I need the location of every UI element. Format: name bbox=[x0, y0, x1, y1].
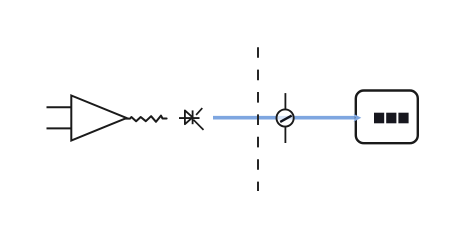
ellipsis dot 2 bbox=[386, 113, 396, 124]
ray: emission lower bbox=[194, 120, 204, 130]
isolator X1 (circle with slash) bbox=[277, 109, 294, 126]
ellipsis dot 1 bbox=[374, 113, 384, 124]
dashed boundary line bbox=[257, 47, 259, 191]
wire: isolator top stub bbox=[284, 93, 286, 110]
ray: emission upper bbox=[196, 108, 202, 115]
module box M1 bbox=[356, 91, 418, 144]
wire: diode through lead bbox=[179, 117, 200, 119]
amplifier A1 bbox=[71, 96, 126, 141]
optical fiber link (blue arrow) bbox=[213, 114, 361, 122]
wire: amplifier input 1 bbox=[47, 106, 72, 108]
wire: isolator bottom stub bbox=[284, 126, 286, 143]
ellipsis dot 3 bbox=[398, 113, 408, 124]
wire: squiggle output lead bbox=[125, 116, 167, 122]
laser diode D1 bbox=[185, 110, 193, 124]
wire: amplifier input 2 bbox=[47, 127, 72, 129]
